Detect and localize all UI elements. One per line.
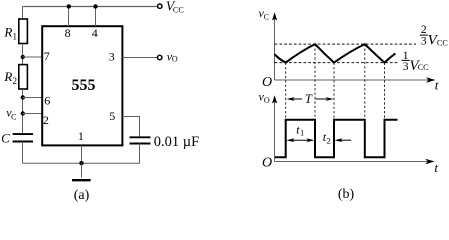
dashed level 1/3 VCC: [275, 62, 398, 64]
label t2: [323, 130, 331, 145]
dimension T left arrow: [287, 97, 303, 101]
wire: R2 to C: [22, 89, 24, 134]
svg-text:3: 3: [109, 50, 115, 64]
junction: node pin6: [21, 95, 25, 99]
dimension t2 arrow: [335, 138, 352, 142]
label fraction 2/3 VCC: [420, 24, 449, 49]
resistor R1: [19, 19, 28, 44]
svg-text:2: 2: [43, 113, 49, 127]
dimension T right arrow: [316, 97, 334, 101]
svg-text:5: 5: [109, 109, 115, 123]
capacitor C: [13, 134, 33, 141]
wire: pin 6: [23, 97, 43, 99]
svg-text:3: 3: [421, 36, 427, 48]
svg-text:CC: CC: [173, 6, 184, 15]
svg-text:2: 2: [326, 136, 330, 146]
dashed vertical at peak 2: [364, 44, 366, 119]
arrowhead t lower: [425, 159, 434, 164]
label R2: [3, 69, 17, 86]
dashed vertical at valley 1: [285, 63, 287, 120]
dimension t1 arrows: [286, 138, 314, 142]
wire: ground stub: [81, 163, 83, 177]
wire: top rail to R1: [22, 7, 24, 20]
label t1: [296, 122, 304, 137]
resistor R2: [19, 65, 28, 89]
svg-text:C: C: [1, 130, 10, 145]
wire: pin 8 stub: [68, 7, 70, 27]
terminal vO: [158, 55, 162, 59]
svg-text:(a): (a): [74, 188, 90, 202]
dashed vertical at valley 3: [384, 63, 386, 120]
svg-text:6: 6: [44, 93, 50, 107]
wire: pin 1 stub: [81, 146, 83, 164]
svg-text:555: 555: [72, 77, 96, 94]
svg-text:t: t: [434, 160, 438, 175]
wire: pin 4 stub: [95, 7, 97, 27]
svg-text:8: 8: [65, 26, 71, 40]
svg-text:7: 7: [44, 49, 50, 63]
label fraction 1/3 VCC: [402, 50, 430, 74]
arrowhead vC axis: [272, 12, 277, 20]
svg-text:t: t: [435, 78, 439, 93]
svg-text:1: 1: [13, 32, 18, 42]
wire: bottom rail: [23, 162, 141, 164]
dashed level 2/3 VCC: [275, 43, 416, 45]
arrowhead vO axis: [272, 95, 277, 103]
label vC axis: [259, 6, 270, 22]
svg-text:O: O: [262, 156, 272, 171]
svg-text:3: 3: [403, 61, 409, 73]
waveform vC: [275, 44, 396, 63]
junction: pin1 on bottom rail: [79, 161, 83, 165]
svg-text:CC: CC: [437, 38, 448, 47]
svg-text:O: O: [172, 55, 178, 64]
svg-text:T: T: [305, 92, 313, 106]
dashed vertical at peak 1: [314, 44, 316, 119]
label R1: [3, 25, 17, 42]
ground: [72, 179, 91, 181]
wire: pin 3 output: [123, 57, 158, 59]
svg-text:0.01 µF: 0.01 µF: [154, 134, 199, 150]
IC 555 U1: [42, 26, 122, 145]
svg-text:C: C: [11, 112, 16, 121]
svg-text:C: C: [264, 12, 269, 21]
svg-text:O: O: [262, 75, 272, 90]
svg-text:1: 1: [78, 129, 84, 143]
axis t upper horizontal: [275, 79, 429, 81]
junction: pin8 on rail: [67, 4, 71, 8]
svg-text:2: 2: [421, 24, 427, 36]
dashed vertical at valley 2: [333, 63, 335, 120]
axis vO vertical: [274, 100, 276, 162]
junction: pin4 on rail: [93, 4, 97, 8]
axis vC vertical: [274, 17, 276, 80]
svg-text:4: 4: [92, 26, 98, 40]
label VCC: [166, 0, 185, 15]
axis t lower horizontal: [275, 161, 428, 163]
svg-text:R: R: [3, 69, 12, 84]
svg-text:2: 2: [13, 76, 18, 86]
junction: node vC: [21, 111, 25, 115]
label vC: [6, 105, 16, 121]
wire: pin 7: [23, 56, 43, 58]
capacitor 0.01uF: [130, 137, 151, 143]
arrowhead t upper: [426, 77, 435, 82]
wire: C to bottom rail: [22, 142, 24, 164]
svg-text:CC: CC: [418, 63, 429, 72]
terminal VCC: [158, 4, 162, 8]
waveform vO square: [275, 120, 398, 158]
wire: pin 5: [123, 117, 140, 137]
svg-text:1: 1: [300, 127, 304, 137]
svg-text:R: R: [3, 25, 12, 40]
svg-text:O: O: [264, 96, 270, 105]
label vO axis: [259, 90, 270, 105]
junction: node pin7: [21, 55, 25, 59]
wire: 0.01uF to bottom rail: [139, 144, 141, 164]
label vO: [167, 49, 178, 63]
svg-text:(b): (b): [338, 187, 355, 202]
wire: top supply rail: [23, 6, 158, 8]
wire: pin 2: [23, 113, 43, 115]
wire: R1 to R2: [22, 44, 24, 65]
